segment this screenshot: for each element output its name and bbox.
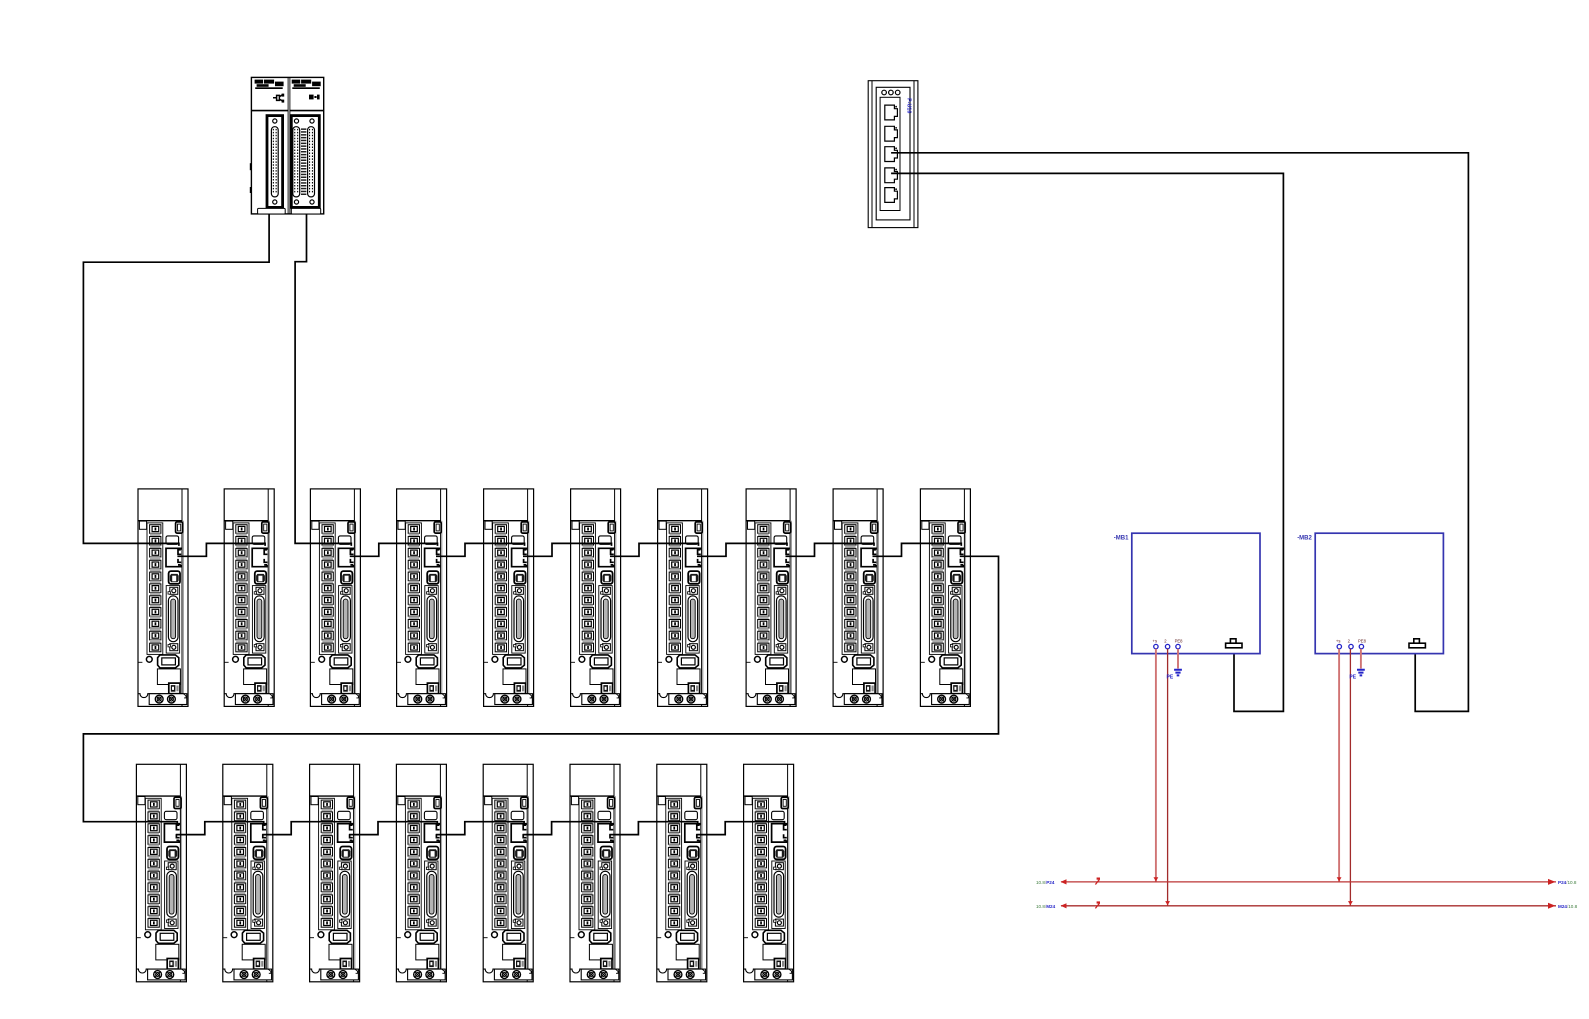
power bus M24 [1061, 903, 1557, 909]
wire drive A7 to drive A8 [697, 543, 787, 556]
svg-text:10.8/M24: 10.8/M24 [1036, 904, 1056, 909]
wire drive A3 to drive A4 [350, 543, 438, 556]
servo drive A4 [397, 489, 447, 707]
panel MB1 outline [1132, 533, 1260, 653]
servo drive A6 [571, 489, 621, 707]
svg-text:+s: +s [1336, 639, 1341, 644]
svg-text:PE: PE [1349, 675, 1356, 681]
panel MB1 terminal +s [1154, 644, 1158, 648]
panel MB2 terminal PE8 [1359, 644, 1363, 648]
servo drive A1 [138, 489, 188, 707]
switch LEDs [882, 90, 900, 95]
svg-text:P-U16: P-U16 [905, 98, 911, 113]
wire switch port3 to panel MB2 [891, 153, 1468, 712]
servo drive A18 [744, 764, 794, 982]
panel MB1 comm port [1226, 639, 1242, 648]
wire drive A6 to drive A7 [610, 543, 699, 556]
panel MB2 terminal 2 [1349, 644, 1353, 648]
servo drive A5 [484, 489, 534, 707]
servo drive A11 [136, 764, 186, 982]
svg-text:10.8/P24: 10.8/P24 [1036, 880, 1055, 885]
svg-text:M24/10.8: M24/10.8 [1558, 904, 1578, 909]
panel MB2 comm port [1409, 639, 1425, 648]
switch RJ45 port 3 [885, 147, 898, 162]
svg-text:PE8: PE8 [1358, 639, 1367, 644]
MB1 PE earth symbol [1174, 670, 1182, 676]
ethernet switch U3 outline [868, 81, 918, 228]
svg-text:PE8: PE8 [1175, 639, 1184, 644]
panel MB1 terminal 2 [1165, 644, 1169, 648]
wire MB1 0V [1167, 649, 1169, 906]
junction MB1 0V on M24 [1165, 901, 1170, 905]
panel MB1 terminal PE8 [1176, 644, 1180, 648]
PLC module U1 connector CN1 [267, 116, 283, 208]
junction MB2 0V on M24 [1348, 901, 1353, 905]
PLC module U2 type label [309, 95, 320, 100]
wire MB2 0V [1349, 649, 1351, 906]
MB2 PE earth symbol [1357, 670, 1365, 676]
wire drive A11 to drive A12 [176, 822, 264, 835]
PLC module U1 header [251, 80, 288, 111]
svg-text:+s: +s [1153, 639, 1158, 644]
servo drive A15 [483, 764, 533, 982]
PLC bottom plates [258, 208, 286, 214]
power bus P24 [1061, 879, 1557, 885]
wire PLC CN2 to drive A3 [295, 214, 351, 546]
bus P24 wire definition point [1095, 878, 1100, 885]
wire drive A1 to drive A2 [177, 543, 265, 556]
svg-text:P24/10.8: P24/10.8 [1558, 880, 1577, 885]
wire MB2 +24V [1338, 649, 1340, 882]
junction MB1 +24V on P24 [1154, 877, 1159, 881]
servo drive A3 [310, 489, 360, 707]
panel MB2 terminal +s [1337, 644, 1341, 648]
switch RJ45 port 4 [885, 168, 898, 183]
wire drive A4 to drive A5 [436, 543, 525, 556]
wire PLC CN1 to drive A1 [83, 214, 269, 546]
wire drive A5 to drive A6 [523, 543, 612, 556]
junction MB2 +24V on P24 [1337, 877, 1342, 881]
PLC module U1 network logo [273, 94, 284, 103]
servo drive A17 [657, 764, 707, 982]
wire MB1 +24V [1155, 649, 1157, 882]
wire drive A8 to drive A9 [786, 543, 875, 556]
switch RJ45 port 1 [885, 105, 898, 120]
wire drive A17 to drive A18 [696, 822, 784, 835]
servo drive A16 [570, 764, 620, 982]
servo drive A13 [310, 764, 360, 982]
wire drive A12 to drive A13 [262, 822, 350, 835]
switch port column [880, 97, 900, 210]
servo drive A14 [396, 764, 446, 982]
PLC module U2 connector CN2 [291, 116, 319, 208]
servo drive A7 [658, 489, 708, 707]
PLC rack outline [250, 77, 324, 214]
PLC module U2 header [290, 80, 324, 111]
servo drive A10 [920, 489, 970, 707]
wire drive A14 to drive A15 [436, 822, 524, 835]
svg-text:-MB2: -MB2 [1297, 536, 1312, 542]
servo drive A9 [833, 489, 883, 707]
servo drive A12 [223, 764, 273, 982]
switch RJ45 port 2 [885, 126, 898, 141]
wire drive A16 to drive A17 [609, 822, 697, 835]
wire MB2 PE [1360, 649, 1362, 669]
servo drive A8 [746, 489, 796, 707]
svg-text:PE: PE [1167, 675, 1174, 681]
svg-text:-MB1: -MB1 [1114, 536, 1129, 542]
bus M24 wire definition point [1095, 901, 1100, 908]
wire drive A9 to drive A10 [873, 543, 962, 556]
wire MB1 PE [1177, 649, 1179, 669]
panel MB2 outline [1315, 533, 1443, 653]
switch RJ45 port 5 [885, 188, 898, 203]
wire drive A15 to drive A16 [523, 822, 611, 835]
wire drive A13 to drive A14 [349, 822, 437, 835]
wire switch port4 to panel MB1 [891, 173, 1283, 711]
wire drive A10 to drive A11 [83, 556, 998, 824]
servo drive A2 [224, 489, 274, 707]
